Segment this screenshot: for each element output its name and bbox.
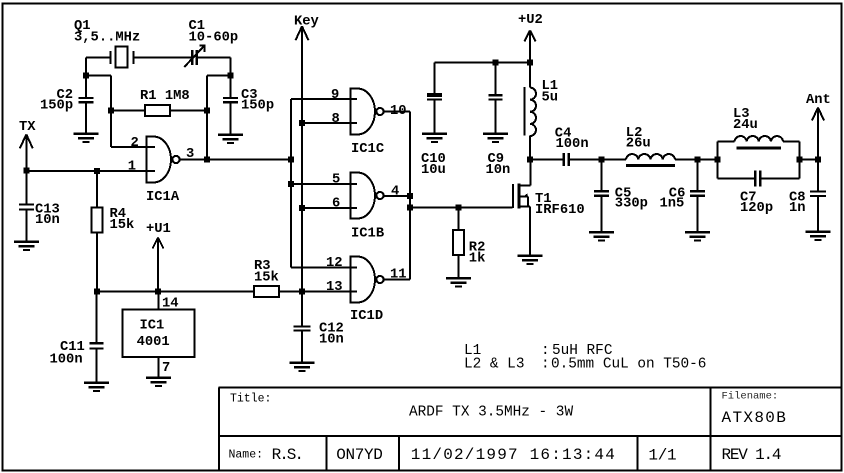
svg-text:15k: 15k <box>254 269 279 285</box>
svg-text:14: 14 <box>162 297 179 312</box>
svg-text:11/02/1997 16:13:44: 11/02/1997 16:13:44 <box>411 446 616 464</box>
svg-text:+U1: +U1 <box>146 222 171 237</box>
svg-text:IC1D: IC1D <box>350 309 383 324</box>
svg-text:150p: 150p <box>241 99 274 114</box>
svg-text:10n: 10n <box>319 333 344 348</box>
svg-text:R1 1M8: R1 1M8 <box>140 89 190 104</box>
svg-text:1: 1 <box>128 160 136 175</box>
svg-text:4001: 4001 <box>137 335 170 350</box>
svg-text:1n: 1n <box>789 201 806 216</box>
svg-text:10u: 10u <box>421 163 446 178</box>
svg-text:1n5: 1n5 <box>660 197 685 212</box>
svg-text:120p: 120p <box>740 201 773 216</box>
svg-text:1/1: 1/1 <box>648 447 676 465</box>
svg-text:IRF610: IRF610 <box>535 203 585 218</box>
svg-text:ON7YD: ON7YD <box>336 446 382 464</box>
svg-text:7: 7 <box>162 361 170 376</box>
svg-text:10n: 10n <box>486 163 511 178</box>
svg-text:9: 9 <box>331 88 339 103</box>
svg-text:IC1A: IC1A <box>146 190 180 205</box>
svg-text:+U2: +U2 <box>518 13 543 28</box>
svg-text:330p: 330p <box>615 197 648 212</box>
svg-text:26u: 26u <box>626 136 651 151</box>
svg-text:5u: 5u <box>542 90 559 105</box>
svg-text::: : <box>541 357 550 373</box>
svg-text:13: 13 <box>326 280 343 295</box>
svg-text:ATX80B: ATX80B <box>722 409 788 427</box>
svg-text:Ant: Ant <box>806 93 831 108</box>
svg-text:Name:: Name: <box>229 448 264 461</box>
svg-text:100n: 100n <box>50 353 83 368</box>
svg-text:4: 4 <box>391 185 399 200</box>
svg-text:1k: 1k <box>469 251 486 267</box>
svg-text:3: 3 <box>186 147 194 162</box>
svg-text:Title:: Title: <box>230 393 271 406</box>
svg-text:R.S.: R.S. <box>272 446 302 464</box>
svg-text:0.5mm CuL on T50-6: 0.5mm CuL on T50-6 <box>551 357 706 373</box>
svg-text:5: 5 <box>332 173 340 188</box>
svg-text:15k: 15k <box>110 217 135 233</box>
svg-text:11: 11 <box>390 268 407 283</box>
svg-text:IC1C: IC1C <box>351 142 384 157</box>
svg-text:10: 10 <box>390 104 407 119</box>
svg-text:100n: 100n <box>556 137 589 152</box>
svg-text:Key: Key <box>294 15 320 30</box>
svg-text:L2 & L3: L2 & L3 <box>464 357 524 373</box>
svg-text:12: 12 <box>326 256 343 271</box>
svg-text:TX: TX <box>19 120 36 135</box>
svg-text:150p: 150p <box>40 99 73 114</box>
svg-text:10n: 10n <box>35 213 60 228</box>
svg-text:ARDF TX 3.5MHz - 3W: ARDF TX 3.5MHz - 3W <box>409 405 573 421</box>
svg-text:24u: 24u <box>733 118 758 133</box>
svg-text:6: 6 <box>332 197 340 212</box>
svg-text:Filename:: Filename: <box>722 391 779 403</box>
svg-text:10-60p: 10-60p <box>189 31 239 46</box>
svg-text:IC1: IC1 <box>140 318 165 333</box>
svg-text:IC1B: IC1B <box>351 227 384 242</box>
svg-text:3,5..MHz: 3,5..MHz <box>74 31 140 46</box>
svg-text:2: 2 <box>131 136 139 151</box>
svg-text:REV 1.4: REV 1.4 <box>722 446 781 464</box>
svg-text:8: 8 <box>332 112 340 127</box>
